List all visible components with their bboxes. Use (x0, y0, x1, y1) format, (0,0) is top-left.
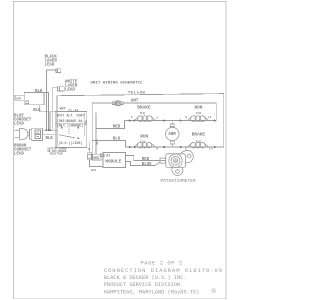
svg-text:S: S (156, 116, 158, 119)
svg-text:SPST ALT. CONT: SPST ALT. CONT (56, 114, 84, 118)
label L1 (209, 147, 213, 150)
svg-text:RED: RED (142, 158, 150, 162)
svg-text:BLK: BLK (113, 138, 121, 142)
label RED boxed (93, 154, 102, 161)
svg-text:F: F (131, 116, 133, 119)
label WHT at switch (60, 108, 66, 112)
label CAP (15, 95, 24, 100)
label YELLOW (128, 91, 146, 95)
label L2 (208, 116, 212, 119)
label YEL vertical (84, 120, 87, 125)
capacitor C1 body (24, 92, 44, 104)
label RUN bottom-left (140, 135, 148, 140)
label FLD top-right (196, 112, 201, 115)
svg-text:CL-25: CL-25 (69, 109, 79, 113)
wire module RED to potentiometer (126, 155, 161, 160)
svg-text:LEAD: LEAD (65, 88, 75, 92)
svg-text:WHT: WHT (131, 100, 139, 104)
label POTENTIOMETER (161, 180, 196, 184)
wire right rail WHT (215, 103, 217, 121)
label BLACK LASER LEAD (45, 56, 58, 68)
svg-text:BLACK & DECKER (U.S.) INC.: BLACK & DECKER (U.S.) INC. (104, 275, 187, 281)
wire switch to breaker (88, 142, 90, 153)
svg-text:YEL: YEL (84, 120, 87, 125)
label BLK (113, 138, 121, 142)
svg-text:BRAKE: BRAKE (192, 133, 206, 138)
terminal black laser lead (56, 69, 61, 73)
svg-text:ARM: ARM (168, 133, 176, 137)
svg-text:LEAD: LEAD (14, 152, 24, 156)
svg-text:BLUE: BLUE (142, 163, 152, 167)
wire cap bottom branch to junction (49, 112, 51, 130)
svg-text:FLD: FLD (196, 112, 201, 115)
svg-text:PRODUCT SERVICE DIVISION: PRODUCT SERVICE DIVISION (104, 282, 180, 288)
svg-text:PAGE 2 OF 2: PAGE 2 OF 2 (141, 261, 183, 267)
label WHITE LASER LEAD (65, 80, 78, 92)
svg-text:RUN: RUN (195, 105, 203, 110)
junction dots bottom wire (129, 146, 216, 148)
wire cordset to switch (upper) (42, 129, 57, 131)
wire cap top to junction (44, 93, 49, 131)
module A1 (101, 153, 126, 168)
label BRAKE bottom-right (192, 133, 206, 138)
label BLK under module wire (91, 169, 96, 172)
wire RED to bridge (96, 121, 125, 129)
wire cap bottom to switch box (39, 105, 55, 112)
switch S1 enclosure (55, 112, 86, 148)
wire BLK to bridge (92, 141, 125, 148)
switch divider line (55, 122, 86, 124)
wire breaker to module BLK (89, 160, 103, 167)
svg-text:LEAD: LEAD (14, 122, 24, 126)
circuit breaker component (87, 153, 91, 160)
label RED vertical (95, 140, 98, 145)
scan smudge mark (212, 289, 215, 292)
svg-text:POTENTIOMETER: POTENTIOMETER (161, 180, 196, 184)
coil brake field bottom-right (188, 142, 209, 148)
junction dots cordset (45, 129, 51, 131)
wire white laser lead to junction (52, 88, 57, 131)
svg-text:S: S (185, 147, 187, 150)
cordset plug connector (15, 128, 30, 140)
wire WHT from switch area (92, 103, 216, 141)
wire black laser lead to junction (46, 70, 56, 130)
short vertical wire YEL (84, 113, 86, 137)
label FLD bottom-right (196, 141, 201, 144)
switch contacts and blade (59, 125, 78, 138)
label RUN top-right (195, 105, 203, 110)
svg-text:WHT: WHT (60, 108, 66, 112)
label BLK cap bottom (33, 109, 41, 113)
armature M1 (166, 121, 179, 147)
cordset terminal block (30, 128, 43, 140)
svg-text:L1: L1 (209, 147, 213, 150)
svg-text:BLK: BLK (35, 90, 43, 94)
label CL-25 (69, 109, 79, 113)
inline connector on WHT wire (112, 101, 123, 106)
svg-text:S: S (156, 147, 158, 150)
bridge bottom wire (126, 146, 224, 148)
label RED (113, 126, 121, 130)
wire WHT riser lower part (91, 141, 93, 155)
svg-text:MODULE: MODULE (105, 160, 121, 165)
svg-text:S: S (185, 116, 187, 119)
wire module BLUE to potentiometer (126, 162, 161, 166)
title UNIT WIRING SCHEMATIC (91, 81, 144, 85)
svg-text:POSITION: POSITION (50, 152, 63, 155)
svg-text:BLK: BLK (46, 137, 54, 141)
wire yellow top rail (57, 94, 224, 147)
schematic left edge lower segment (56, 112, 58, 148)
bridge top wire (125, 120, 217, 122)
svg-text:HAMPSTEAD, MARYLAND (May85-TS): HAMPSTEAD, MARYLAND (May85-TS) (104, 289, 199, 295)
label RED wire (142, 158, 150, 162)
label WHT on wire (131, 100, 139, 104)
label S bottom-left (156, 147, 158, 150)
potentiometer R1 (160, 150, 193, 175)
label SWITCH SHOWN IN OFF/BRAKE POSITION (47, 147, 67, 155)
label S top-right (185, 116, 187, 119)
svg-text:LEAD: LEAD (45, 64, 55, 68)
label BROWN CORDSET LEAD (14, 144, 32, 156)
coil run field top-right (188, 116, 209, 122)
svg-text:CONNECTION DIAGRAM 618178-00: CONNECTION DIAGRAM 618178-00 (104, 268, 223, 274)
svg-text:RUN: RUN (140, 135, 148, 140)
switch text rows (56, 114, 84, 145)
label BLK cordset wires (46, 137, 54, 141)
coil brake field top-left (135, 116, 156, 122)
svg-text:RED: RED (94, 157, 100, 161)
svg-text:AI: AI (106, 155, 110, 159)
label BLUE wire (142, 163, 152, 167)
vertical wire with RED label (95, 113, 97, 155)
label S bottom-right (185, 147, 187, 150)
svg-text:BLK: BLK (91, 169, 96, 172)
label BRAKE top-left (137, 105, 151, 110)
label F (131, 116, 133, 119)
label FLD bottom-left (140, 141, 145, 144)
label S (156, 116, 158, 119)
svg-text:BRAKE: BRAKE (137, 105, 151, 110)
svg-text:FLD: FLD (140, 112, 145, 115)
junction dots top wire (129, 120, 216, 122)
junction dot at breaker (88, 148, 90, 150)
label BLUE CORDSET LEAD (14, 114, 32, 126)
svg-text:CAP: CAP (16, 97, 21, 100)
svg-text:(N.O.)(LINE): (N.O.)(LINE) (59, 141, 83, 146)
wire cordset to switch (lower) (42, 133, 55, 135)
label BLK cap top (35, 90, 43, 94)
border frame (14, 2, 227, 299)
svg-text:UNIT WIRING SCHEMATIC: UNIT WIRING SCHEMATIC (91, 81, 144, 85)
title block text (104, 261, 223, 296)
svg-text:RED: RED (113, 126, 121, 130)
terminal white laser lead (58, 87, 65, 91)
label FLD top-left (140, 112, 145, 115)
coil run field bottom-left (135, 142, 155, 148)
svg-text:L2: L2 (208, 116, 212, 119)
